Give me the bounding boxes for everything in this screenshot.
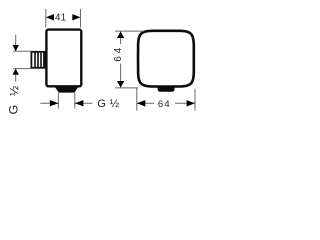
width dim 64: arrowheads <box>137 100 145 106</box>
front view: bottom outlet (black) <box>157 86 175 92</box>
front view: soft-square escutcheon <box>138 31 194 87</box>
width dim 64: extension lines <box>137 88 195 111</box>
svg-text:½: ½ <box>7 86 21 96</box>
nipple diameter dim: dim line above <box>15 35 17 51</box>
nipple diameter dim: arrow up <box>13 69 19 75</box>
width dim 64: dim lines <box>137 102 195 104</box>
bottom outlet dim: dim lines <box>40 102 92 104</box>
height dim 64: extension lines <box>115 31 144 88</box>
bottom outlet dim: arrowheads <box>50 100 59 106</box>
svg-text:41: 41 <box>55 13 67 24</box>
dimension 41: arrowheads <box>46 14 54 20</box>
thread hatch lines <box>35 52 44 69</box>
side view: wall plate body <box>46 30 81 87</box>
dimension 41: extension lines <box>46 9 81 28</box>
svg-text:G: G <box>97 98 106 110</box>
bottom outlet dim: extension lines <box>58 93 74 109</box>
side view: threaded nipple G1/2 <box>31 52 44 68</box>
height dim 64: arrowheads <box>117 32 124 39</box>
svg-text:G: G <box>7 105 21 115</box>
svg-text:64: 64 <box>158 99 171 110</box>
svg-text:4: 4 <box>113 47 124 53</box>
svg-text:½: ½ <box>110 98 120 110</box>
svg-text:6: 6 <box>113 56 124 62</box>
nipple diameter dim: arrow down <box>13 45 19 51</box>
height dim 64: dim line <box>120 32 122 88</box>
nipple diameter dim: dim line below <box>15 69 17 82</box>
side view: bottom outlet (black trapezoid) <box>55 87 78 93</box>
nipple diameter dim: extension lines <box>13 51 31 68</box>
